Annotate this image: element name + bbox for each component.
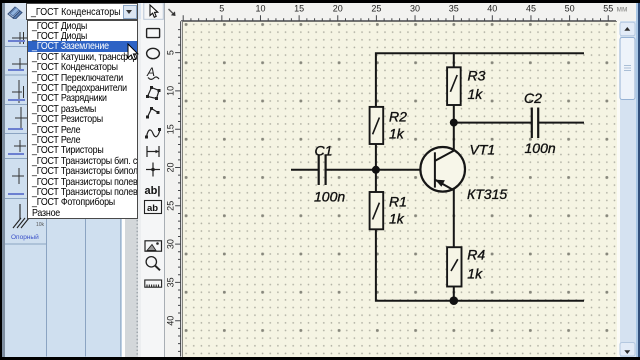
dimension tool	[147, 146, 159, 157]
wire R3 bottom to collector	[453, 105, 455, 151]
wire R3 top	[453, 53, 455, 67]
vertical ruler area	[165, 3, 182, 358]
white strip right of canvas	[617, 21, 620, 356]
svg-text:1k: 1k	[389, 126, 405, 142]
left dark edge band	[2, 3, 6, 358]
wire top rail	[376, 53, 583, 107]
svg-text:15: 15	[294, 4, 304, 14]
measure tool	[145, 280, 162, 287]
gray strip (palette scrollbar)	[125, 19, 139, 358]
text box tool	[145, 201, 162, 214]
wire collector node to C2	[454, 122, 531, 124]
svg-text:R1: R1	[389, 194, 407, 210]
wire C2 right	[539, 122, 583, 124]
svg-text:50: 50	[565, 4, 575, 14]
wire R1 bottom rail	[376, 230, 583, 301]
svg-text:1k: 1k	[468, 86, 484, 102]
combobox	[26, 3, 138, 20]
polyline tool	[148, 109, 159, 118]
curve tool	[147, 130, 161, 138]
dropdown list	[27, 20, 138, 219]
column separators	[46, 218, 48, 357]
svg-text:10: 10	[255, 4, 265, 14]
left ruler ticks and numbers	[175, 21, 181, 356]
svg-text:25: 25	[165, 201, 175, 211]
svg-text:A: A	[146, 65, 155, 79]
right window edge	[636, 3, 639, 358]
svg-text:100n: 100n	[525, 140, 556, 156]
rectangle tool	[147, 29, 160, 38]
wire R2 bottom to R1 top	[375, 144, 377, 192]
cell borders horizontal (left strip)	[5, 46, 27, 48]
svg-text:R2: R2	[389, 109, 407, 125]
svg-text:20: 20	[333, 4, 343, 14]
resistor R1	[370, 192, 384, 229]
right scrollbar track	[620, 21, 636, 356]
tiny blue captions in left strip	[8, 40, 25, 42]
svg-text:10k: 10k	[36, 222, 45, 228]
mouse cursor	[127, 43, 141, 62]
svg-text:35: 35	[165, 277, 175, 287]
svg-text:R3: R3	[468, 68, 486, 84]
resistor R3	[447, 67, 461, 105]
svg-text:10: 10	[165, 86, 175, 96]
svg-text:55: 55	[603, 4, 613, 14]
svg-text:5: 5	[165, 50, 175, 55]
svg-text:ab: ab	[147, 203, 158, 214]
svg-text:R4: R4	[467, 247, 485, 263]
svg-text:VT1: VT1	[470, 142, 496, 158]
wire C1 left lead	[292, 169, 318, 171]
svg-text:ab|: ab|	[145, 185, 161, 197]
svg-text:C1: C1	[315, 143, 333, 159]
capacitor C2	[532, 108, 538, 139]
svg-text:КТ315: КТ315	[467, 186, 507, 202]
svg-text:5: 5	[219, 4, 224, 14]
ground symbol in palette cell	[13, 204, 29, 228]
left black edge	[0, 0, 2, 360]
node tool	[146, 163, 160, 177]
svg-text:15: 15	[165, 124, 175, 134]
svg-text:1k: 1k	[389, 211, 405, 227]
dotted drag handle on gray strip	[136, 22, 138, 355]
ruler corner icon	[169, 9, 176, 16]
white strip right of palette	[122, 19, 125, 358]
svg-text:C2: C2	[524, 90, 542, 106]
pointer tool (selected)	[144, 3, 164, 20]
layers icon	[6, 3, 26, 19]
canvas	[182, 21, 618, 357]
component palette background	[5, 19, 122, 358]
top black bar	[0, 0, 640, 3]
transistor VT1	[420, 147, 465, 192]
junction emitter rail node	[450, 296, 459, 305]
wire R4 bottom	[453, 287, 455, 301]
wire emitter to R4	[453, 190, 455, 247]
ellipse tool	[147, 48, 160, 58]
capacitor C1	[319, 155, 326, 186]
resistor R4	[447, 247, 461, 286]
svg-text:30: 30	[165, 239, 175, 249]
svg-text:1k: 1k	[467, 266, 483, 282]
svg-text:100n: 100n	[314, 189, 345, 205]
canvas dot grid	[183, 22, 617, 356]
picture tool	[145, 241, 162, 251]
palette caption Опорный	[11, 234, 39, 241]
bottom black bar	[0, 357, 640, 360]
zoom tool	[146, 257, 160, 271]
polygon tool	[148, 88, 160, 99]
top ruler ticks and numbers	[181, 15, 616, 21]
top ruler strip	[165, 3, 636, 22]
svg-text:45: 45	[526, 4, 536, 14]
light gap before tools	[138, 19, 141, 358]
svg-text:35: 35	[449, 4, 459, 14]
svg-text:мм: мм	[617, 5, 628, 14]
svg-text:20: 20	[165, 162, 175, 172]
junction collector node	[450, 119, 458, 127]
palette mini symbols	[12, 32, 27, 184]
svg-text:40: 40	[165, 316, 175, 326]
tools toolbar column	[141, 3, 165, 358]
wire base node	[326, 169, 420, 171]
svg-text:40: 40	[487, 4, 497, 14]
svg-text:25: 25	[371, 4, 381, 14]
resistor R2	[370, 107, 384, 144]
svg-text:30: 30	[410, 4, 420, 14]
junction base node	[372, 166, 380, 174]
